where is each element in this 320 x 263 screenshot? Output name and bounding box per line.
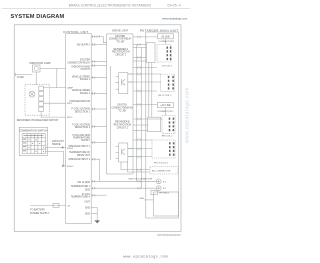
svg-text:“TO J/B”: “TO J/B” xyxy=(116,42,125,44)
wire coil 1 feed xyxy=(133,67,157,69)
svg-text:VEHICLE SPEED: VEHICLE SPEED xyxy=(72,76,91,78)
wire Q1 to coil 2 a xyxy=(128,73,161,75)
wire coil driver A in 1 xyxy=(133,44,147,46)
retarder inner feed wire b xyxy=(151,63,153,118)
svg-text:GND: GND xyxy=(85,207,90,209)
coil connector 3 dashed xyxy=(162,116,175,134)
svg-text:www.epcatalogs.com: www.epcatalogs.com xyxy=(185,87,191,143)
svg-text:SW 1: SW 1 xyxy=(67,103,73,105)
svg-text:TEMPERATURE A: TEMPERATURE A xyxy=(71,195,91,198)
svg-text:UNIT: UNIT xyxy=(85,201,91,203)
svg-text:DAYTON CONNECTOR: DAYTON CONNECTOR xyxy=(129,177,153,180)
lamp L1 bulb xyxy=(34,66,38,70)
node tick at frame xyxy=(14,73,16,76)
wire temperature supply row xyxy=(91,141,106,143)
svg-text:GND: GND xyxy=(85,190,90,192)
svg-text:COMBINATION SWITCH: COMBINATION SWITCH xyxy=(19,129,47,132)
S1 contact stack xyxy=(39,86,44,90)
svg-text:T/F GND 1: T/F GND 1 xyxy=(159,193,170,195)
drive unit labels xyxy=(109,36,133,130)
connector ticks control unit xyxy=(93,35,100,196)
gnd wire 1 xyxy=(91,208,97,221)
svg-text:FR LT COIL 1: FR LT COIL 1 xyxy=(158,95,172,97)
svg-text:RETARDER A: RETARDER A xyxy=(114,48,129,51)
svg-text:SW SUPPLY: SW SUPPLY xyxy=(77,45,91,47)
row temp xyxy=(91,194,106,196)
svg-text:EXH 1: EXH 1 xyxy=(67,148,74,150)
Q2 symbol xyxy=(122,149,126,156)
svg-text:LH COIL 1: LH COIL 1 xyxy=(162,65,173,67)
wire S2 out1 xyxy=(46,147,66,149)
svg-text:SAPH265010200043: SAPH265010200043 xyxy=(157,234,181,237)
svg-text:RETARDER MAIN UNIT: RETARDER MAIN UNIT xyxy=(140,28,179,32)
svg-text:SIGNAL 1: SIGNAL 1 xyxy=(80,78,91,81)
svg-text:EXCITER: EXCITER xyxy=(115,36,125,38)
bottom module box xyxy=(154,192,179,216)
svg-text:CONNECTOR RELAY: CONNECTOR RELAY xyxy=(67,61,90,64)
svg-text:RECTIFICATION: RECTIFICATION xyxy=(112,51,130,54)
+B LINE label box xyxy=(158,34,174,39)
wire sw supply row xyxy=(91,44,106,46)
connector ticks drive-retarder xyxy=(138,36,140,190)
fuse F1 xyxy=(53,203,59,207)
wire exciter relay row xyxy=(91,61,106,63)
Q1 symbol xyxy=(122,79,126,86)
drive unit inner bus xyxy=(110,66,112,160)
battery terminal B2 xyxy=(156,186,161,191)
svg-text:DRIVE UNIT: DRIVE UNIT xyxy=(112,29,128,33)
wire coil driver A in 2 xyxy=(133,47,147,49)
svg-text:RR COIL 2: RR COIL 2 xyxy=(162,136,173,138)
wire speed signal 2 row xyxy=(91,92,106,94)
header rule xyxy=(2,8,190,10)
TEXT LAYER xyxy=(69,3,181,236)
wire F coil detection row xyxy=(91,108,106,110)
coil connector 1 dashed xyxy=(157,45,171,63)
wire coil driver A in 3 xyxy=(133,57,147,59)
svg-text:INDICATOR LAMP: INDICATOR LAMP xyxy=(29,61,51,65)
svg-text:SUPPLY: SUPPLY xyxy=(81,140,90,142)
control unit left pin labels xyxy=(67,87,74,208)
S2 table marks xyxy=(23,135,44,152)
Q2 pin stubs xyxy=(116,147,134,159)
arrow S2 out1 xyxy=(62,146,65,148)
bottom terminal block xyxy=(151,191,158,195)
wire coil driver B in 2 xyxy=(133,130,148,132)
transistor Q2 box xyxy=(119,143,128,162)
svg-text:CIRCUIT 1: CIRCUIT 1 xyxy=(115,55,127,57)
svg-text:GND: GND xyxy=(85,213,90,215)
wire coil 2 return xyxy=(133,90,157,92)
wire coil 3 feed xyxy=(133,118,162,120)
wire T coil detection row xyxy=(91,126,106,128)
coil driver A box xyxy=(147,43,156,63)
coil connector 2 dashed xyxy=(161,74,175,91)
svg-text:www.epcatalogs.com: www.epcatalogs.com xyxy=(123,254,169,259)
wire +AC to coil 3 xyxy=(164,108,166,116)
wire lamp branch down xyxy=(56,69,58,88)
svg-text:+B LINE: +B LINE xyxy=(161,37,170,39)
ground symbol G1 xyxy=(94,220,100,223)
wire S1 row2 xyxy=(43,102,65,104)
svg-text:RETARDER B: RETARDER B xyxy=(115,121,130,124)
wire lamp to switch xyxy=(35,72,37,85)
svg-text:T COIL VOLTAGE: T COIL VOLTAGE xyxy=(72,124,91,127)
svg-text:“TO J/B”: “TO J/B” xyxy=(118,110,127,112)
wire S1 bottom xyxy=(41,111,66,117)
retarder main unit box xyxy=(146,32,179,218)
svg-text:FUSE: FUSE xyxy=(17,76,24,79)
arrow S2 out2 xyxy=(62,165,65,167)
wire bottom gnd xyxy=(144,199,153,201)
drive unit U2 box xyxy=(107,34,133,174)
svg-text:TEMPERATURE OF: TEMPERATURE OF xyxy=(69,151,91,154)
retarder changeover switch S1 dashed box xyxy=(25,85,50,116)
svg-text:T COIL AND GND: T COIL AND GND xyxy=(72,134,91,137)
wire Q2 down to AC connector a xyxy=(121,162,150,170)
wire coil driver A in 4 xyxy=(133,60,147,62)
connector row +B xyxy=(91,37,106,43)
drive unit bus wires xyxy=(136,45,138,182)
svg-text:TEMPERATURE 1: TEMPERATURE 1 xyxy=(71,185,91,188)
svg-text:GND: GND xyxy=(139,198,144,200)
wire battery supply xyxy=(30,204,66,206)
svg-text:OPEN/GND INPUT 1: OPEN/GND INPUT 1 xyxy=(68,146,90,148)
wire Q1 to coil 2 b xyxy=(128,81,161,83)
svg-text:VEHICLE SPEED: VEHICLE SPEED xyxy=(72,90,91,92)
retarder labels xyxy=(129,37,176,200)
svg-text:SIGNAL 2: SIGNAL 2 xyxy=(80,92,91,95)
svg-text:TEMPERATURE: TEMPERATURE xyxy=(73,137,91,140)
coil pins 3 xyxy=(170,118,174,132)
svg-text:BRAKE CONTROL (ELECTROMAGNETIC: BRAKE CONTROL (ELECTROMAGNETIC RETARDER) xyxy=(69,3,151,7)
coil connector 4 dashed xyxy=(152,140,175,158)
svg-text:DH05–4: DH05–4 xyxy=(168,3,182,7)
svg-text:DAYTON: DAYTON xyxy=(117,104,127,107)
svg-text:SW 12 GND: SW 12 GND xyxy=(77,182,90,184)
retarder inner feed wire a xyxy=(148,63,150,118)
svg-text:CONNECTOR 1: CONNECTOR 1 xyxy=(159,41,176,43)
AC connector dashed box xyxy=(150,167,178,175)
svg-text:RECTIFICATION: RECTIFICATION xyxy=(114,123,132,126)
wire coil driver B in 1 xyxy=(133,124,148,126)
wire Q2 down to AC connector b xyxy=(128,162,150,172)
wire speed signal 1 row xyxy=(91,77,106,79)
battery terminal B1 xyxy=(156,179,161,184)
svg-text:INDICATION AND: INDICATION AND xyxy=(72,65,91,68)
wire S2 out2 xyxy=(46,151,66,165)
svg-text:SW 2: SW 2 xyxy=(67,117,73,119)
svg-text:POWER SUPPLY: POWER SUPPLY xyxy=(30,212,50,215)
coil pins 4 xyxy=(170,142,174,156)
svg-text:+AC LINE: +AC LINE xyxy=(160,104,171,107)
wire jog row xyxy=(91,159,106,181)
svg-text:EXH 2: EXH 2 xyxy=(67,166,74,168)
svg-text:DETECTION 1: DETECTION 1 xyxy=(75,111,91,113)
wire +AC line row xyxy=(133,104,157,106)
coil driver B box xyxy=(148,117,161,132)
svg-text:DETECTION 4: DETECTION 4 xyxy=(75,127,91,129)
svg-text:SYSTEM DIAGRAM: SYSTEM DIAGRAM xyxy=(11,14,65,20)
indicator lamp L1 box xyxy=(33,65,41,72)
wire +B to coil 1 xyxy=(165,39,167,45)
wire fuse to lamp xyxy=(15,74,32,76)
gnd wire 2 xyxy=(91,213,97,215)
svg-text:DRIVE UNIT: DRIVE UNIT xyxy=(77,155,91,157)
svg-text:CONNECTOR 2: CONNECTOR 2 xyxy=(158,111,175,113)
svg-text:EXCITER: EXCITER xyxy=(80,60,90,62)
svg-text:CHANGEOVER SW: CHANGEOVER SW xyxy=(69,100,91,103)
svg-text:OPEN/GND INPUT 2: OPEN/GND INPUT 2 xyxy=(68,159,90,161)
wire lamp to control unit xyxy=(40,68,66,70)
coil pins 1 xyxy=(167,47,170,61)
svg-text:CONNECTOR RELAY: CONNECTOR RELAY xyxy=(109,38,132,41)
long wire to battery a xyxy=(91,180,100,182)
svg-text:OUTPUT: OUTPUT xyxy=(81,69,91,71)
svg-text:CONTROL UNIT: CONTROL UNIT xyxy=(63,30,88,34)
svg-text:CIRCUIT 2: CIRCUIT 2 xyxy=(117,127,129,129)
svg-text:BRAKE: BRAKE xyxy=(52,143,61,146)
long wire to battery b xyxy=(91,187,156,189)
svg-text:RETARDER CHANGEOVER SWITCH: RETARDER CHANGEOVER SWITCH xyxy=(17,119,59,122)
svg-text:CONNECTOR(M–B): CONNECTOR(M–B) xyxy=(111,108,132,110)
svg-text:LAMP: LAMP xyxy=(67,87,73,90)
combination switch S2 box xyxy=(19,127,47,155)
svg-text:F COIL VOLTAGE: F COIL VOLTAGE xyxy=(72,108,91,111)
wire +B line row xyxy=(133,36,158,38)
S2 table grid xyxy=(22,134,45,154)
wire S1 row1 xyxy=(43,87,65,89)
control unit pin labels xyxy=(67,45,91,216)
outer frame xyxy=(14,25,181,232)
coil pins 2 xyxy=(169,76,174,90)
wire coil 4 feed xyxy=(133,139,152,141)
transistor Q1 box xyxy=(119,73,128,94)
Q1 pin stubs xyxy=(116,74,134,89)
svg-text:A/C CONNECTOR: A/C CONNECTOR xyxy=(152,170,171,173)
wire indication output row xyxy=(91,65,106,67)
pilot lamp in S1 xyxy=(29,91,35,97)
control unit U1 box xyxy=(66,34,92,224)
+AC LINE label box xyxy=(157,103,173,108)
svg-text:FR LH COIL 3: FR LH COIL 3 xyxy=(154,162,169,164)
svg-text:www.epcatalogs.com: www.epcatalogs.com xyxy=(162,17,188,21)
wire Q2 to coil 4 b xyxy=(128,156,152,158)
wire Q2 to coil 4 a xyxy=(128,148,152,150)
